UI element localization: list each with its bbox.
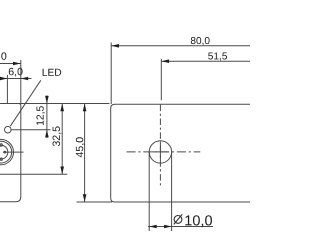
- dimension line 32,5: [61, 104, 63, 175]
- dimension line 51,5: [161, 60, 250, 62]
- vertical centerline dashed: [159, 105, 161, 186]
- arrow 12,5 top outside: [45, 96, 49, 104]
- label 51,5: [208, 53, 227, 61]
- top edge extension line: [0, 103, 110, 105]
- connector pin dot right: [4, 151, 7, 154]
- right view body outline: [111, 104, 250, 202]
- label 80,0: [191, 37, 210, 45]
- arrow 51,5 left: [161, 59, 169, 63]
- connector second ring: [0, 141, 12, 163]
- arrow D10 left: [149, 225, 157, 229]
- arrow 12,5 bottom outside: [45, 130, 49, 138]
- arrow 45,0 bottom: [83, 194, 87, 202]
- arrow 45,0 top: [83, 104, 87, 112]
- bottom extension line for 45,0: [77, 201, 113, 203]
- crosshair solid vertical: [159, 144, 161, 161]
- LED center extension line: [11, 129, 51, 131]
- extension line 51,5 left: [160, 59, 162, 100]
- hole tangent extension line right: [171, 152, 173, 231]
- diameter symbol slash: [174, 214, 182, 224]
- mounting hole circle D10: [149, 141, 171, 163]
- arrow 80,0 left: [111, 44, 119, 48]
- label 6,0: [9, 68, 23, 77]
- arrow x,0 right: [13, 62, 21, 66]
- left view body outline: [0, 104, 21, 202]
- label 12,5 rotated: [36, 106, 45, 125]
- LED pointer leader line: [10, 80, 41, 126]
- diameter symbol circle: [174, 216, 182, 224]
- dimension line 6,0: [0, 78, 32, 80]
- arrow 6,0 right outside: [21, 77, 28, 81]
- dimension line x,0 (cut): [0, 63, 21, 65]
- connector centerline tick: [3, 151, 24, 153]
- housing feature line / 32,5 extension line: [0, 173, 67, 175]
- extension line at body right edge: [20, 60, 22, 104]
- label 32,5 rotated: [53, 126, 62, 146]
- extension line 6,0 LED axis: [6, 75, 8, 104]
- hole tangent extension line left: [148, 152, 150, 231]
- horizontal centerline dashed: [127, 151, 201, 153]
- arrow 32,5 bottom: [60, 167, 64, 175]
- arrow 6,0 left outside: [0, 77, 7, 81]
- dimension line 80,0: [111, 45, 250, 47]
- dimension line 45,0: [84, 104, 86, 203]
- arrow D10 right: [164, 225, 172, 229]
- dimension line 12,5: [46, 95, 48, 138]
- connector inner circle: [0, 145, 8, 159]
- LED indicator circle: [5, 126, 12, 133]
- label LED: [43, 69, 62, 76]
- extension line 80,0 left: [110, 43, 112, 105]
- crosshair solid horizontal: [152, 151, 169, 153]
- connector pin dot top: [0, 144, 2, 146]
- label 10,0 of diameter dimension: [185, 215, 212, 227]
- label ,0 (cut dimension): [0, 52, 6, 61]
- connector pin dot bottom: [0, 158, 2, 160]
- label 45,0 rotated: [76, 137, 85, 157]
- arrow 32,5 top: [60, 104, 64, 112]
- connector outer ring: [0, 139, 14, 164]
- dimension line D10,0: [148, 226, 213, 228]
